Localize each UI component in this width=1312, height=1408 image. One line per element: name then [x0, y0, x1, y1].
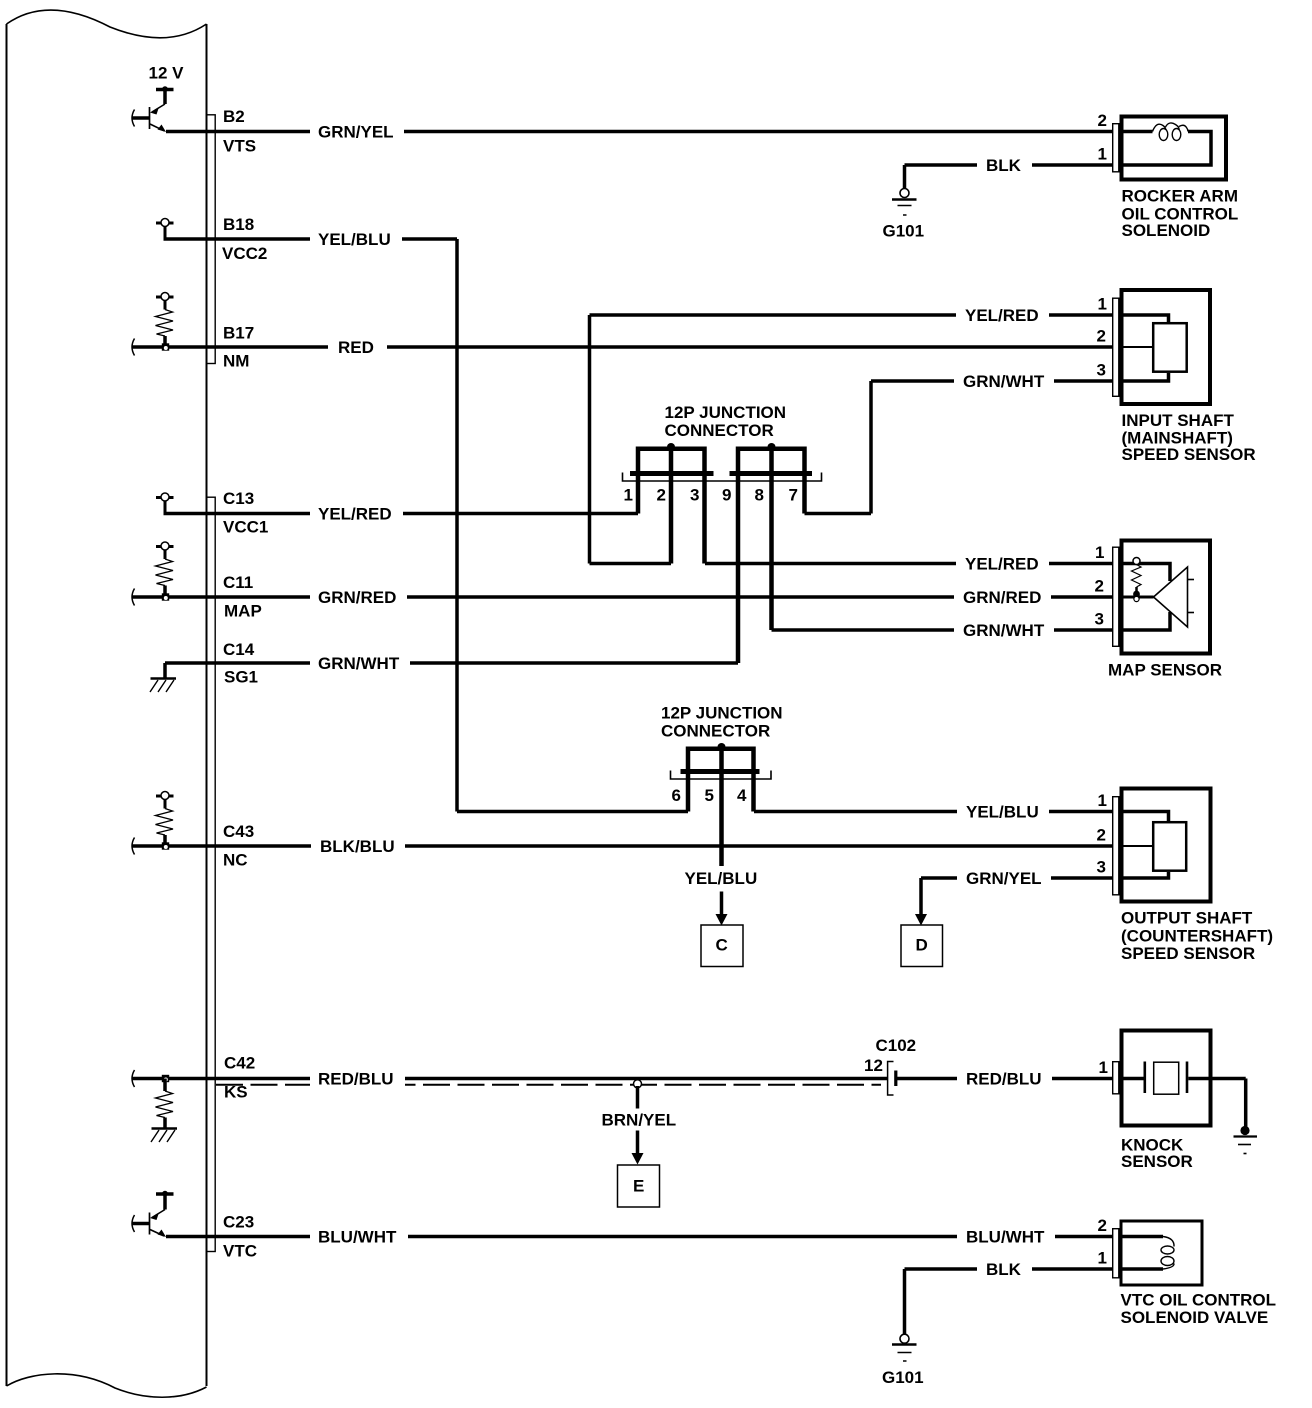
svg-text:KS: KS: [224, 1083, 248, 1102]
svg-text:C13: C13: [223, 489, 254, 508]
svg-text:SPEED SENSOR: SPEED SENSOR: [1121, 944, 1255, 963]
svg-text:BLK/BLU: BLK/BLU: [320, 837, 395, 856]
svg-text:GRN/RED: GRN/RED: [963, 588, 1041, 607]
svg-text:BLK: BLK: [986, 1260, 1022, 1279]
svg-text:GRN/YEL: GRN/YEL: [318, 123, 394, 142]
svg-text:2: 2: [1098, 1216, 1107, 1235]
svg-text:GRN/WHT: GRN/WHT: [963, 372, 1045, 391]
svg-text:MAP SENSOR: MAP SENSOR: [1108, 661, 1222, 680]
svg-text:SG1: SG1: [224, 668, 258, 687]
svg-text:7: 7: [789, 486, 798, 505]
svg-text:C42: C42: [224, 1054, 255, 1073]
svg-text:1: 1: [1098, 295, 1107, 314]
svg-text:G101: G101: [883, 222, 925, 241]
svg-text:YEL/RED: YEL/RED: [318, 505, 392, 524]
svg-text:OUTPUT SHAFT: OUTPUT SHAFT: [1121, 909, 1253, 928]
svg-text:C102: C102: [876, 1036, 917, 1055]
svg-text:SOLENOID VALVE: SOLENOID VALVE: [1121, 1308, 1269, 1327]
svg-text:VTS: VTS: [223, 137, 256, 156]
svg-text:RED: RED: [338, 338, 374, 357]
svg-text:B17: B17: [223, 324, 254, 343]
svg-text:1: 1: [1098, 145, 1107, 164]
svg-text:BLU/WHT: BLU/WHT: [966, 1228, 1045, 1247]
svg-text:VCC1: VCC1: [223, 518, 268, 537]
svg-text:YEL/RED: YEL/RED: [965, 306, 1039, 325]
svg-text:3: 3: [690, 486, 699, 505]
svg-text:1: 1: [1095, 543, 1104, 562]
svg-text:BLU/WHT: BLU/WHT: [318, 1228, 397, 1247]
svg-text:9: 9: [722, 486, 731, 505]
svg-text:VTC OIL CONTROL: VTC OIL CONTROL: [1121, 1291, 1277, 1310]
svg-text:RED/BLU: RED/BLU: [318, 1070, 394, 1089]
svg-text:E: E: [633, 1177, 644, 1196]
svg-text:RED/BLU: RED/BLU: [966, 1070, 1042, 1089]
svg-text:D: D: [916, 936, 928, 955]
svg-text:YEL/BLU: YEL/BLU: [685, 869, 758, 888]
svg-text:NM: NM: [223, 352, 249, 371]
svg-text:3: 3: [1095, 610, 1104, 629]
svg-text:4: 4: [737, 786, 747, 805]
svg-text:CONNECTOR: CONNECTOR: [661, 722, 770, 741]
svg-text:12P JUNCTION: 12P JUNCTION: [661, 704, 783, 723]
svg-text:2: 2: [1098, 111, 1107, 130]
svg-text:1: 1: [1098, 791, 1107, 810]
svg-text:C14: C14: [223, 640, 255, 659]
svg-text:GRN/WHT: GRN/WHT: [318, 654, 400, 673]
svg-text:G101: G101: [882, 1368, 924, 1387]
svg-text:YEL/BLU: YEL/BLU: [318, 230, 391, 249]
svg-text:VCC2: VCC2: [222, 244, 267, 263]
svg-text:CONNECTOR: CONNECTOR: [665, 421, 774, 440]
svg-text:NC: NC: [223, 851, 248, 870]
svg-text:B18: B18: [223, 215, 254, 234]
svg-text:GRN/RED: GRN/RED: [318, 588, 396, 607]
svg-text:SOLENOID: SOLENOID: [1122, 221, 1211, 240]
svg-text:BRN/YEL: BRN/YEL: [602, 1111, 677, 1130]
svg-text:6: 6: [672, 786, 681, 805]
svg-text:(COUNTERSHAFT): (COUNTERSHAFT): [1121, 927, 1273, 946]
svg-text:2: 2: [1095, 577, 1104, 596]
svg-text:BLK: BLK: [986, 156, 1022, 175]
svg-text:SPEED SENSOR: SPEED SENSOR: [1122, 445, 1256, 464]
svg-text:SENSOR: SENSOR: [1121, 1152, 1193, 1171]
svg-text:1: 1: [624, 486, 633, 505]
svg-text:C11: C11: [223, 573, 253, 592]
svg-text:2: 2: [657, 486, 666, 505]
svg-text:C43: C43: [223, 822, 254, 841]
svg-text:8: 8: [755, 486, 764, 505]
svg-text:MAP: MAP: [224, 602, 262, 621]
svg-text:GRN/WHT: GRN/WHT: [963, 621, 1045, 640]
svg-text:INPUT SHAFT: INPUT SHAFT: [1122, 411, 1235, 430]
svg-text:12: 12: [864, 1056, 883, 1075]
svg-text:5: 5: [705, 786, 714, 805]
svg-text:YEL/RED: YEL/RED: [965, 555, 1039, 574]
svg-text:1: 1: [1098, 1249, 1107, 1268]
svg-text:C: C: [716, 936, 728, 955]
svg-text:B2: B2: [223, 107, 245, 126]
svg-text:2: 2: [1097, 327, 1106, 346]
svg-text:2: 2: [1097, 826, 1106, 845]
svg-text:1: 1: [1099, 1058, 1108, 1077]
svg-text:GRN/YEL: GRN/YEL: [966, 869, 1042, 888]
svg-text:YEL/BLU: YEL/BLU: [966, 803, 1039, 822]
svg-text:12 V: 12 V: [149, 64, 185, 83]
svg-text:C23: C23: [223, 1213, 254, 1232]
svg-text:ROCKER ARM: ROCKER ARM: [1122, 187, 1238, 206]
svg-text:12P JUNCTION: 12P JUNCTION: [665, 403, 787, 422]
svg-text:3: 3: [1097, 361, 1106, 380]
svg-text:VTC: VTC: [223, 1242, 257, 1261]
svg-text:3: 3: [1097, 858, 1106, 877]
